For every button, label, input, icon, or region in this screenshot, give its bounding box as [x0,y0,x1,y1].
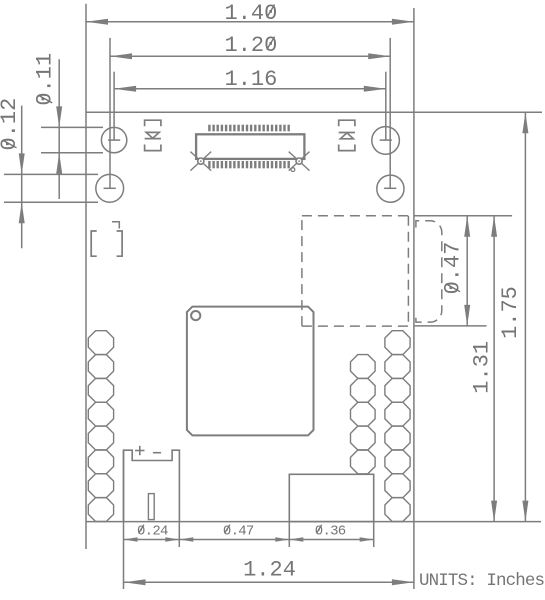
dim 1.20 line [110,55,390,57]
IC pin1 circle [191,311,200,320]
castellated pads left column [88,331,113,522]
polarity mark [K] right [339,120,355,150]
right dim extension (shield bottom) [414,325,487,327]
silkscreen bracket right [117,231,123,256]
svg-text:UNITS: Inches: UNITS: Inches [419,571,545,591]
antenna tab dashed rounded outline [416,221,442,322]
mounting hole bottom-left [96,174,124,202]
hole diameter 0.12 tangent lines [4,173,98,175]
dim 1.16 line [114,88,386,90]
hole diameter 0.11 tangent lines [41,126,103,128]
dim 1.24 arrows [124,579,146,585]
svg-text:0.36: 0.36 [315,524,346,540]
dim 1.20 extension left [109,38,111,188]
shield keepout dashed rectangle [302,216,414,326]
connector alignment cross left [190,152,211,171]
mounting hole top-left [101,127,126,152]
board outline bottom edge (with right extension) [86,521,541,523]
dim 1.20 arrows [110,53,132,59]
svg-text:1.24: 1.24 [243,558,296,583]
bottom dims extension lines [123,450,125,589]
connector pin1 small circle [291,168,295,172]
dim 1.31 arrows [491,216,497,237]
svg-text:0.12: 0.12 [0,98,22,151]
connector top pin row [208,125,290,132]
svg-text:0.11: 0.11 [33,53,58,106]
battery plus mark [135,446,144,455]
dim 1.20 extension right [389,38,391,188]
dim 0.47 line [466,216,468,326]
svg-text:1.31: 1.31 [469,341,494,394]
castellated pads right outer column [385,331,410,522]
polarity mark [K] left [145,120,161,150]
board outline left edge (with extension) [85,4,87,549]
dia 0.11 arrows [56,106,62,127]
connector bottom pin row [208,161,290,168]
mounting hole bottom-right [377,175,404,202]
svg-text:1.16: 1.16 [225,67,278,92]
silkscreen bracket left [91,231,97,256]
svg-text:0.47: 0.47 [223,524,254,540]
dim 0.47 arrows [464,216,470,237]
silkscreen corner mark [112,222,119,229]
IC U2 outline [187,307,314,436]
dim 1.75 arrows [522,112,528,133]
dim 0.24 arrows [124,537,138,541]
hole diameter 0.11 dim line [58,59,60,199]
dim 1.16 extension left [113,72,115,140]
connector U1 outline [196,134,304,159]
dim 0.36 arrows [289,537,303,541]
mounting hole top-right [372,127,400,155]
dia 0.12 arrows [19,153,25,174]
dim 0.47b arrows [179,537,193,541]
dim 1.40 line [86,21,414,23]
battery minus mark [153,452,161,454]
dim 1.16 extension right [385,72,387,140]
hole diameter 0.12 dim line [21,106,23,249]
dim 1.75 line [524,112,526,521]
right dim extension top (shield top) [414,215,512,217]
svg-text:0.47: 0.47 [441,242,466,295]
connector alignment cross right [289,152,310,171]
dim 1.31 line [493,216,495,522]
battery connector J1 outline [124,450,180,521]
board outline right edge (with extensions) [413,8,415,589]
dim 1.16 arrows [114,86,136,92]
dim 1.40 arrows [86,19,108,25]
dim 1.24 line [124,581,414,583]
battery connector pin [148,494,154,520]
board outline top edge (with right extension) [86,111,542,113]
svg-text:0.24: 0.24 [137,524,168,540]
micro-usb shield rectangle [289,474,373,521]
svg-text:1.75: 1.75 [498,286,523,339]
bottom small dim line [124,539,374,541]
slashed zero marks [3,5,461,534]
bottom row small dim texts [137,524,346,540]
castellated pads right inner column [351,355,376,474]
